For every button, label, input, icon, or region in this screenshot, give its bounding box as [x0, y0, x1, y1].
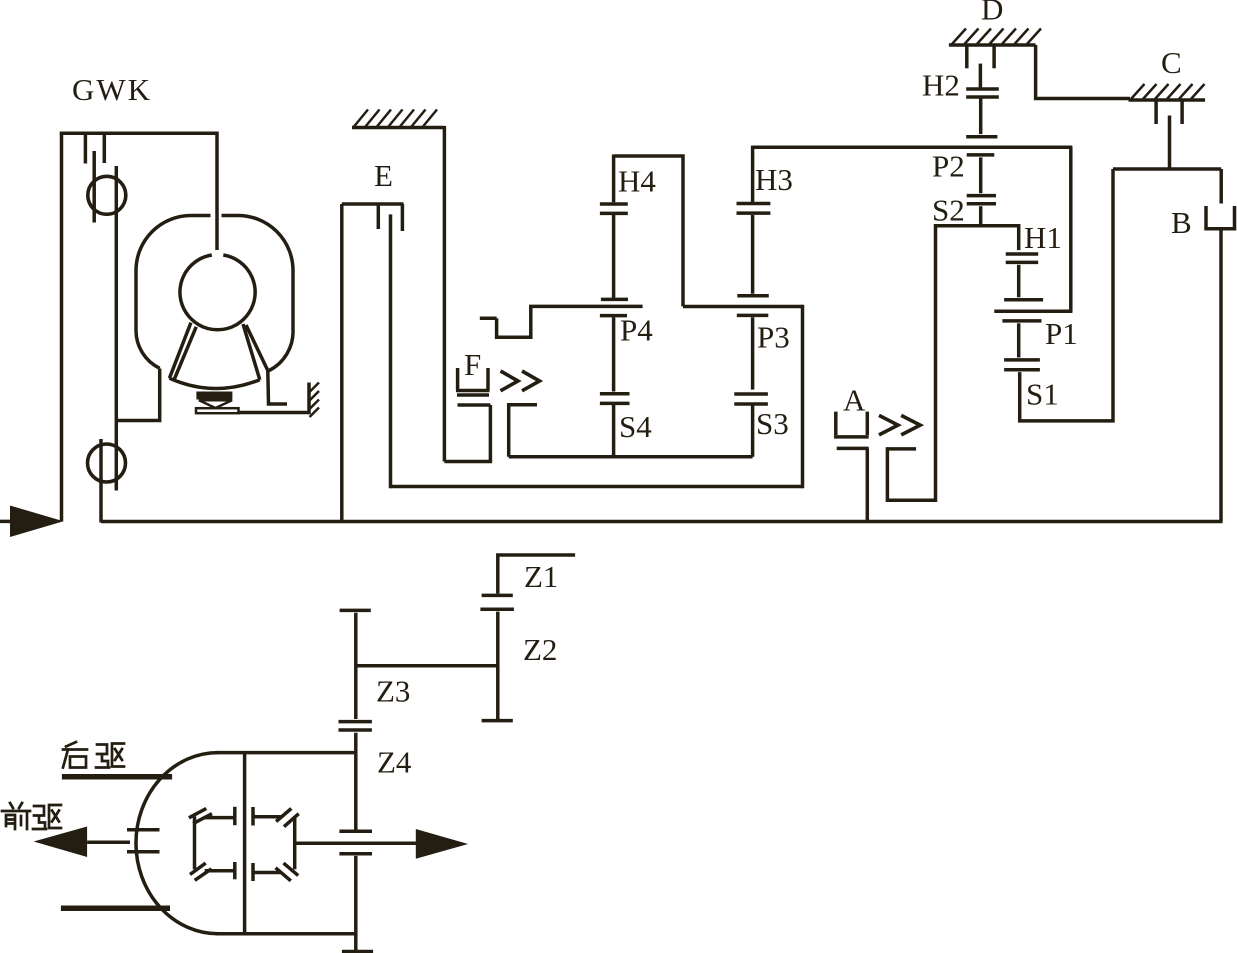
- ground wall C hatches: [1131, 84, 1205, 99]
- svg-text:Z2: Z2: [523, 632, 557, 667]
- bevel gear right top diagonals: [276, 809, 299, 827]
- label rear drive qu: [96, 744, 124, 768]
- left output axle: [87, 841, 130, 845]
- one-way clutch filled block: [196, 392, 232, 400]
- ground wall for E: [352, 126, 444, 130]
- carrier link C to B: [1113, 167, 1221, 171]
- torus outer shell right half: [222, 216, 294, 371]
- bevel gear right bottom diagonals: [276, 863, 299, 881]
- svg-text:GWK: GWK: [72, 72, 152, 107]
- ground wall D: [949, 43, 1036, 47]
- bevel gear left vertical: [193, 816, 197, 869]
- freewheel F arrows: [501, 371, 540, 391]
- inner wheel circle: [180, 255, 255, 330]
- pump link slant edge: [246, 325, 268, 371]
- bevel gear left bottom bar: [205, 869, 235, 873]
- gear Z3-Z4 bars: [339, 722, 372, 730]
- E to carrier long horizontal: [391, 485, 803, 489]
- gear P3 top bar: [737, 294, 769, 298]
- clutch C prong 2: [1180, 100, 1184, 124]
- gear S1 bars: [1004, 360, 1040, 370]
- svg-text:A: A: [843, 383, 866, 418]
- planetary P4 carrier line: [529, 305, 643, 309]
- brake E top bar: [342, 202, 404, 206]
- mesh line Z2-Z3: [356, 664, 498, 668]
- label front drive qu2: [33, 805, 61, 829]
- carrier right vertical to E line: [801, 305, 805, 488]
- clutch D disc stem: [979, 64, 983, 88]
- shaft H4-P4: [612, 215, 616, 298]
- ground wall D hatches: [952, 29, 1041, 45]
- wall vertical to F outer race: [443, 126, 447, 462]
- lockup clutch housing plate 1: [84, 133, 88, 164]
- stator skirt right outer edge: [243, 324, 260, 380]
- shaft H2 lower: [979, 99, 983, 135]
- rear drive lower thick line: [61, 906, 170, 912]
- shaft P4-S4: [612, 317, 616, 391]
- ring H4 top bracket: [614, 156, 683, 306]
- pump link vertical: [268, 371, 287, 405]
- gear Z1 bar: [482, 594, 513, 598]
- gear P1 top bar: [1004, 298, 1043, 302]
- bevel gear left bottom diagonals: [190, 863, 212, 880]
- svg-text:S1: S1: [1026, 377, 1059, 412]
- svg-text:S2: S2: [932, 193, 965, 228]
- gear P4 top bar: [601, 298, 628, 302]
- freewheel F lower plate: [458, 403, 491, 407]
- brake E disc shaft: [389, 214, 393, 488]
- clutch A outer cup: [834, 412, 869, 437]
- differential housing bottom: [216, 932, 356, 936]
- stator skirt left outer edge: [169, 323, 191, 379]
- stator ground hatches: [310, 383, 320, 418]
- gear P3 bottom bar: [737, 314, 769, 318]
- bevel gear left top tick: [233, 807, 237, 825]
- shaft H3-P3: [751, 215, 755, 294]
- svg-text:H4: H4: [618, 164, 656, 199]
- ground wall C: [1129, 98, 1206, 102]
- shaft P3-S3: [751, 317, 755, 389]
- clutch A inner race path: [887, 224, 935, 500]
- brake E prong 1: [377, 204, 381, 229]
- svg-text:P4: P4: [620, 313, 653, 348]
- stator ground line: [239, 411, 310, 415]
- lockup clutch driven plate: [92, 151, 96, 223]
- freewheel F outer race path: [444, 405, 490, 462]
- clutch D prong 2: [992, 45, 996, 68]
- gear S3 bars: [734, 394, 768, 404]
- shaft S4 lower: [612, 405, 616, 457]
- gear Z3 top bar: [340, 609, 371, 613]
- input arrow: [10, 506, 64, 538]
- shaft Z4 end bar: [342, 950, 373, 953]
- clutch C prong 1: [1154, 100, 1158, 124]
- sun shaft line S4-S3: [509, 455, 753, 459]
- lockup clutch housing plate 2: [103, 133, 107, 163]
- stator ground wall: [307, 383, 311, 415]
- torus outer shell left half: [136, 216, 211, 369]
- gear P2 top bar: [966, 135, 997, 139]
- left side gear bars: [127, 830, 160, 852]
- carrier crank step: [497, 306, 531, 338]
- gear Z1 bracket: [498, 555, 575, 594]
- bevel gear left top bar: [204, 816, 234, 820]
- bevel gear right vertical: [293, 817, 297, 870]
- svg-text:Z1: Z1: [524, 559, 558, 594]
- shaft P2-S2: [979, 157, 983, 193]
- gear P4 bottom bar: [600, 314, 627, 318]
- one-way clutch triangle: [199, 400, 232, 408]
- gear Z2 bottom bar: [482, 719, 513, 723]
- svg-text:P1: P1: [1045, 316, 1078, 351]
- freewheel A arrows: [879, 415, 920, 435]
- shaft Z4 upper: [354, 733, 358, 830]
- svg-text:C: C: [1161, 45, 1182, 80]
- shaft H1 upper: [1017, 224, 1021, 250]
- carrier P1 vertical to H3 line: [1069, 147, 1073, 311]
- damper circle upper: [88, 176, 126, 214]
- shaft Z2: [496, 612, 500, 719]
- stator skirt left inner edge: [174, 327, 196, 380]
- shaft H4 upper: [612, 155, 616, 203]
- stator skirt bottom arc: [169, 378, 259, 388]
- shaft S2 lower: [979, 206, 983, 226]
- gear Z4 bars: [339, 831, 372, 854]
- svg-text:P3: P3: [757, 320, 790, 355]
- left frame vertical from E: [340, 204, 344, 522]
- stator base plate: [196, 408, 239, 413]
- torque converter housing left vertical: [60, 132, 64, 522]
- clutch A stem to input line: [866, 448, 870, 521]
- gear S4 bars: [600, 394, 630, 404]
- bevel gear right top bar: [253, 815, 281, 819]
- right output axle: [295, 841, 417, 845]
- label front drive qian: [2, 803, 30, 829]
- svg-text:D: D: [981, 0, 1003, 27]
- shaft S1 lower bracket: [1020, 169, 1113, 421]
- left output arrow: [34, 827, 88, 858]
- clutch C disc stem: [1168, 116, 1172, 170]
- gear H1 bars: [1006, 254, 1038, 262]
- gear H2 bars: [966, 89, 999, 97]
- ring H3 top line to P1 carrier: [753, 146, 1073, 150]
- torque converter housing top line: [60, 131, 217, 135]
- label rear drive hou: [63, 742, 87, 768]
- turbine link vertical: [116, 369, 159, 421]
- differential housing top: [216, 751, 356, 755]
- svg-text:S3: S3: [756, 406, 789, 441]
- svg-text:E: E: [374, 158, 393, 193]
- right output arrow: [416, 829, 468, 859]
- carrier crank bar: [480, 317, 497, 321]
- svg-text:Z4: Z4: [377, 745, 412, 780]
- svg-text:B: B: [1171, 205, 1192, 240]
- clutch D prong 1: [965, 45, 969, 68]
- svg-text:H3: H3: [755, 162, 793, 197]
- freewheel F plate: [457, 393, 489, 397]
- clutch B stem to input line: [1219, 229, 1223, 522]
- pump input stem: [215, 132, 219, 251]
- planetary P3 carrier line: [683, 305, 803, 309]
- clutch A inner plate: [886, 447, 916, 451]
- gear H3 bars: [737, 204, 771, 214]
- clutch B outer cup: [1204, 206, 1236, 229]
- rear drive upper thick line: [62, 774, 172, 780]
- shaft S3 lower: [751, 405, 755, 457]
- svg-text:F: F: [464, 347, 481, 382]
- gear P1 bottom bar: [1002, 319, 1041, 323]
- bevel gear left top diagonals: [189, 809, 212, 824]
- svg-text:Z3: Z3: [376, 674, 410, 709]
- S2 link bar: [936, 224, 1019, 228]
- damper shaft line: [115, 166, 119, 491]
- damper circle lower: [88, 444, 126, 482]
- brake E prong 2: [401, 204, 405, 231]
- planetary P1 carrier line: [994, 310, 1072, 314]
- svg-text:S4: S4: [619, 409, 652, 444]
- differential carrier plate: [243, 753, 247, 934]
- clutch A plate: [837, 447, 869, 451]
- freewheel F outer cup: [456, 368, 490, 391]
- ground wall E hatches: [354, 110, 437, 127]
- bevel gear right top tick: [251, 807, 255, 826]
- bevel gear right bottom bar: [253, 871, 281, 875]
- gear P2 bottom bar: [967, 153, 995, 157]
- shaft P1-S1: [1017, 323, 1021, 357]
- gear Z2 top bar: [480, 607, 514, 611]
- shaft Z3: [354, 613, 358, 719]
- gear S2 bars: [967, 196, 996, 204]
- differential housing arc: [136, 753, 218, 934]
- input shaft line: [0, 520, 14, 524]
- svg-text:H2: H2: [922, 68, 960, 103]
- main input line to gearbox: [101, 520, 1223, 524]
- output plate through lower damper: [99, 439, 103, 523]
- ground D link to wall C: [1036, 45, 1130, 99]
- bevel gear left bottom tick: [233, 862, 237, 879]
- svg-text:P2: P2: [932, 149, 965, 184]
- clutch B inner disc: [1219, 169, 1223, 204]
- gear H4 bars: [600, 204, 628, 213]
- freewheel F inner race bracket: [509, 405, 537, 457]
- bevel gear right bottom tick: [251, 863, 255, 881]
- shaft H1-P1: [1017, 265, 1021, 298]
- shaft Z4 lower: [354, 856, 358, 953]
- svg-text:H1: H1: [1024, 220, 1062, 255]
- shaft H3 upper: [751, 146, 755, 202]
